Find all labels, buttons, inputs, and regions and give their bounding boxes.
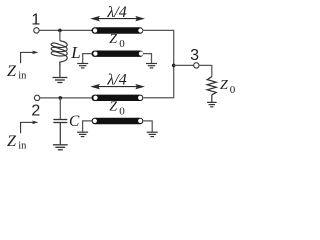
wire TL1 lower-left to ground [83,54,92,64]
port 2 terminal circle [34,95,39,100]
label Z0 (load) [220,78,236,96]
capacitor C [53,120,67,123]
junction node (port2 / C) [59,96,63,100]
inductor L [51,41,67,66]
ground (below C) [53,145,68,150]
wire port 3 to load [199,65,212,76]
svg-text:in: in [18,70,27,81]
arrow Z_in (top) [21,51,39,64]
svg-text:3: 3 [190,47,199,64]
wire TL1 right to node 3 [143,30,174,65]
label Z_in (top) [7,62,27,81]
wire TL1 lower-right to ground [143,54,152,64]
wire resistor to ground [211,95,213,102]
svg-text:in: in [18,140,27,151]
wire TL2 lower-left to ground [83,121,92,132]
junction node 3 [172,64,176,68]
wire port1 to TL1 [39,29,92,31]
ground (TL2 left) [77,132,88,136]
junction node (port1 / L) [58,29,62,33]
svg-text:Z: Z [7,62,17,80]
wire TL2 lower-right to ground [143,121,152,132]
svg-text:C: C [69,113,80,130]
svg-text:1: 1 [31,11,40,28]
svg-text:Z: Z [109,32,117,47]
svg-text:0: 0 [230,84,236,96]
ground (load) [207,102,217,106]
svg-text:Z: Z [109,100,117,115]
dimension arrow lambda/4 (top line) [90,16,145,22]
label lambda/4 (top line) [106,4,126,21]
ground (TL2 right) [147,132,158,136]
ground (TL1 right) [146,64,157,68]
port 3 terminal circle [194,63,199,68]
wire node 3 down to TL2 [143,65,173,97]
svg-text:2: 2 [31,103,40,120]
port 1 terminal circle [34,28,39,33]
svg-text:L: L [70,43,80,62]
ground (below L) [53,78,68,83]
svg-text:0: 0 [119,38,125,50]
arrow Z_in (bottom) [21,121,39,134]
label Z0 (TL1) [109,32,125,50]
dimension arrow lambda/4 (bottom line) [90,84,145,90]
resistor Z0 (load) [207,77,216,95]
wire inductor to ground [59,62,61,77]
svg-text:0: 0 [119,105,125,117]
label Z_in (bottom) [7,132,27,151]
transmission line TL2 upper conductor (Z0) [92,95,144,101]
svg-text:Z: Z [7,132,17,150]
wire capacitor to ground [59,123,61,144]
wire port2 to TL2 [40,97,92,99]
label Z0 (TL2) [109,100,125,118]
wire junction to capacitor [59,98,61,119]
transmission line TL1 lower conductor [92,51,144,57]
ground (TL1 left) [77,64,88,68]
wire node3 to port 3 [174,64,194,66]
wire junction to inductor [59,30,61,40]
transmission line TL1 upper conductor (Z0) [92,27,144,34]
transmission line TL2 lower conductor [92,118,144,124]
svg-text:Z: Z [220,78,228,93]
